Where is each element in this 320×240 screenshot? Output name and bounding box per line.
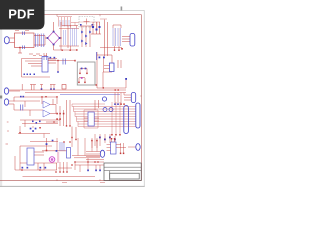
svg-text:PDF: PDF bbox=[8, 6, 35, 21]
